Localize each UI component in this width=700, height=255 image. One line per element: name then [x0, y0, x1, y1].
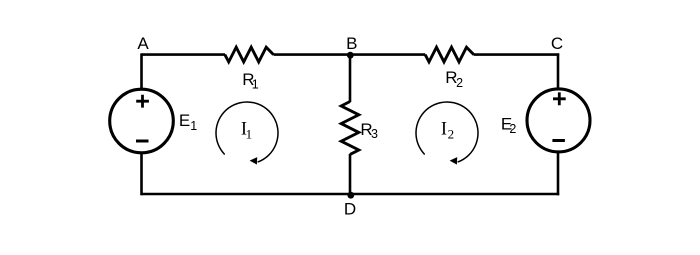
resistor R3 [341, 102, 359, 155]
wire top: R1 to R2 through node B [274, 53, 426, 56]
svg-text:2: 2 [456, 76, 463, 90]
resistor R1 [225, 47, 274, 62]
resistor R2 [425, 47, 474, 62]
wire top: node A to R1 [142, 53, 226, 56]
wire left: node A down to E1 [140, 53, 143, 91]
svg-text:1: 1 [190, 119, 197, 133]
mesh current loop I2 arc [416, 102, 478, 162]
mesh current loop I1 arrowhead [250, 157, 258, 165]
wire top: R2 to node C corner [474, 53, 560, 56]
svg-text:B: B [346, 34, 357, 53]
wire right: E2 bottom to bottom rail [557, 151, 560, 195]
svg-text:I: I [441, 120, 447, 140]
voltage source E1 [110, 89, 174, 153]
wire left: E1 bottom to bottom rail [140, 151, 143, 195]
voltage source E2 [527, 89, 590, 152]
svg-text:A: A [137, 34, 149, 53]
svg-text:3: 3 [371, 127, 378, 141]
wire bottom rail through node D [142, 193, 560, 196]
svg-text:2: 2 [448, 127, 455, 142]
svg-text:D: D [344, 199, 356, 218]
E1 minus sign [136, 140, 149, 143]
E2 plus sign [553, 92, 566, 105]
node B junction dot [347, 52, 354, 59]
node D junction dot [347, 192, 354, 199]
mesh current loop I2 arrowhead [450, 157, 458, 165]
wire right: node C down to E2 [557, 53, 560, 91]
svg-text:E: E [179, 111, 190, 130]
svg-text:1: 1 [246, 127, 253, 142]
svg-text:C: C [551, 34, 563, 53]
svg-text:2: 2 [509, 122, 516, 136]
wire: R3 to node D [349, 154, 352, 194]
mesh current loop I1 arc [216, 102, 278, 162]
E2 minus sign [552, 139, 565, 142]
svg-text:1: 1 [252, 78, 259, 92]
wire: node B down to R3 [349, 55, 352, 102]
E1 plus sign [136, 95, 149, 108]
